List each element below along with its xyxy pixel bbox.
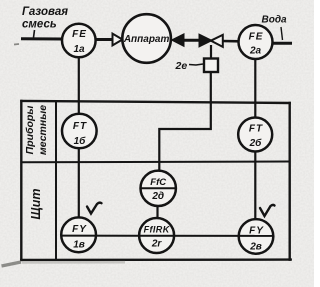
svg-text:Вода: Вода (262, 15, 288, 26)
instrument FT 2b (238, 118, 272, 152)
instrument FE 1a (62, 24, 96, 58)
check mark near FY2v (260, 205, 275, 216)
svg-text:1б: 1б (74, 135, 87, 147)
svg-text:смесь: смесь (22, 19, 57, 31)
svg-text:FT: FT (249, 124, 263, 135)
table column divider (55, 102, 57, 260)
label: Газовая смесь (22, 6, 68, 31)
svg-text:FT: FT (73, 121, 87, 132)
wire: square 2e down with jog to FfC (159, 72, 211, 172)
table row divider (22, 161, 290, 164)
svg-text:2r: 2r (151, 239, 163, 250)
scan smudge below bottom border (22, 261, 125, 264)
rotated label: Приборы местные (24, 105, 49, 155)
filled arrowhead into Аппарат (right) (172, 34, 185, 47)
svg-text:1а: 1а (73, 44, 85, 55)
svg-text:2а: 2а (249, 46, 262, 57)
svg-text:FE: FE (72, 29, 87, 40)
instrument FfIRK 2g (139, 218, 174, 253)
svg-text:FfC: FfC (150, 177, 166, 188)
instrument FfC 2d (141, 171, 176, 206)
label FfIRK 2g (144, 225, 171, 250)
wire: FE1a down to FT1b (78, 56, 80, 115)
leader dash from 2e to square (189, 64, 203, 65)
svg-text:FY: FY (249, 226, 264, 237)
leader tick from смесь to pipe (34, 30, 35, 38)
square 2e (solenoid) (204, 59, 218, 73)
instrument FY 1v (61, 217, 96, 252)
wire: FfC down to FfIRK (156, 205, 158, 220)
svg-text:Щит: Щит (29, 188, 43, 219)
svg-text:2б: 2б (249, 137, 263, 149)
svg-text:2в: 2в (249, 242, 262, 253)
wire: FE2a down to FT2b (254, 58, 256, 119)
valve V1 (200, 35, 223, 47)
svg-text:Аппарат: Аппарат (123, 34, 170, 45)
label FY 2v (249, 226, 264, 253)
svg-text:FE: FE (249, 32, 264, 43)
FfC divider chord (141, 187, 176, 189)
svg-text:2е: 2е (175, 60, 188, 72)
svg-text:FY: FY (72, 224, 87, 235)
scan smudge bottom-left (2, 262, 22, 266)
svg-text:Газовая: Газовая (22, 6, 68, 18)
instrument FE 2a (239, 25, 273, 59)
leader tick from Вода to pipe (281, 27, 283, 40)
wire: right pipe (272, 42, 292, 45)
wire: FT2b down to FY2v (254, 150, 256, 220)
instrument FY 2v (239, 219, 274, 254)
wire: valve stem to square 2e (210, 45, 212, 59)
check mark near FY1v (87, 203, 102, 214)
instrument FT 1b (62, 114, 97, 149)
wire: FE1a to arrow (95, 38, 113, 41)
hollow arrowhead into Аппарат (113, 34, 123, 46)
wire: left pipe (21, 37, 63, 40)
svg-text:2д: 2д (151, 191, 164, 202)
wire: valve to FE2a (222, 40, 240, 43)
table frame (21, 101, 291, 260)
vessel circle Аппарат (122, 14, 171, 63)
svg-text:местные: местные (37, 105, 49, 155)
scan dash left of pipe start (14, 43, 19, 46)
wire: filled arrow to valve (181, 39, 201, 42)
label FY 1v (72, 224, 87, 251)
wire: signal line through FY1v, FfIRK, FY2v (incl. divider chords) (61, 235, 273, 237)
svg-text:1в: 1в (73, 240, 85, 251)
wire: FT1b down to FY1v (78, 147, 80, 219)
svg-text:FfIRK: FfIRK (144, 225, 171, 235)
svg-text:Приборы: Приборы (24, 106, 36, 155)
